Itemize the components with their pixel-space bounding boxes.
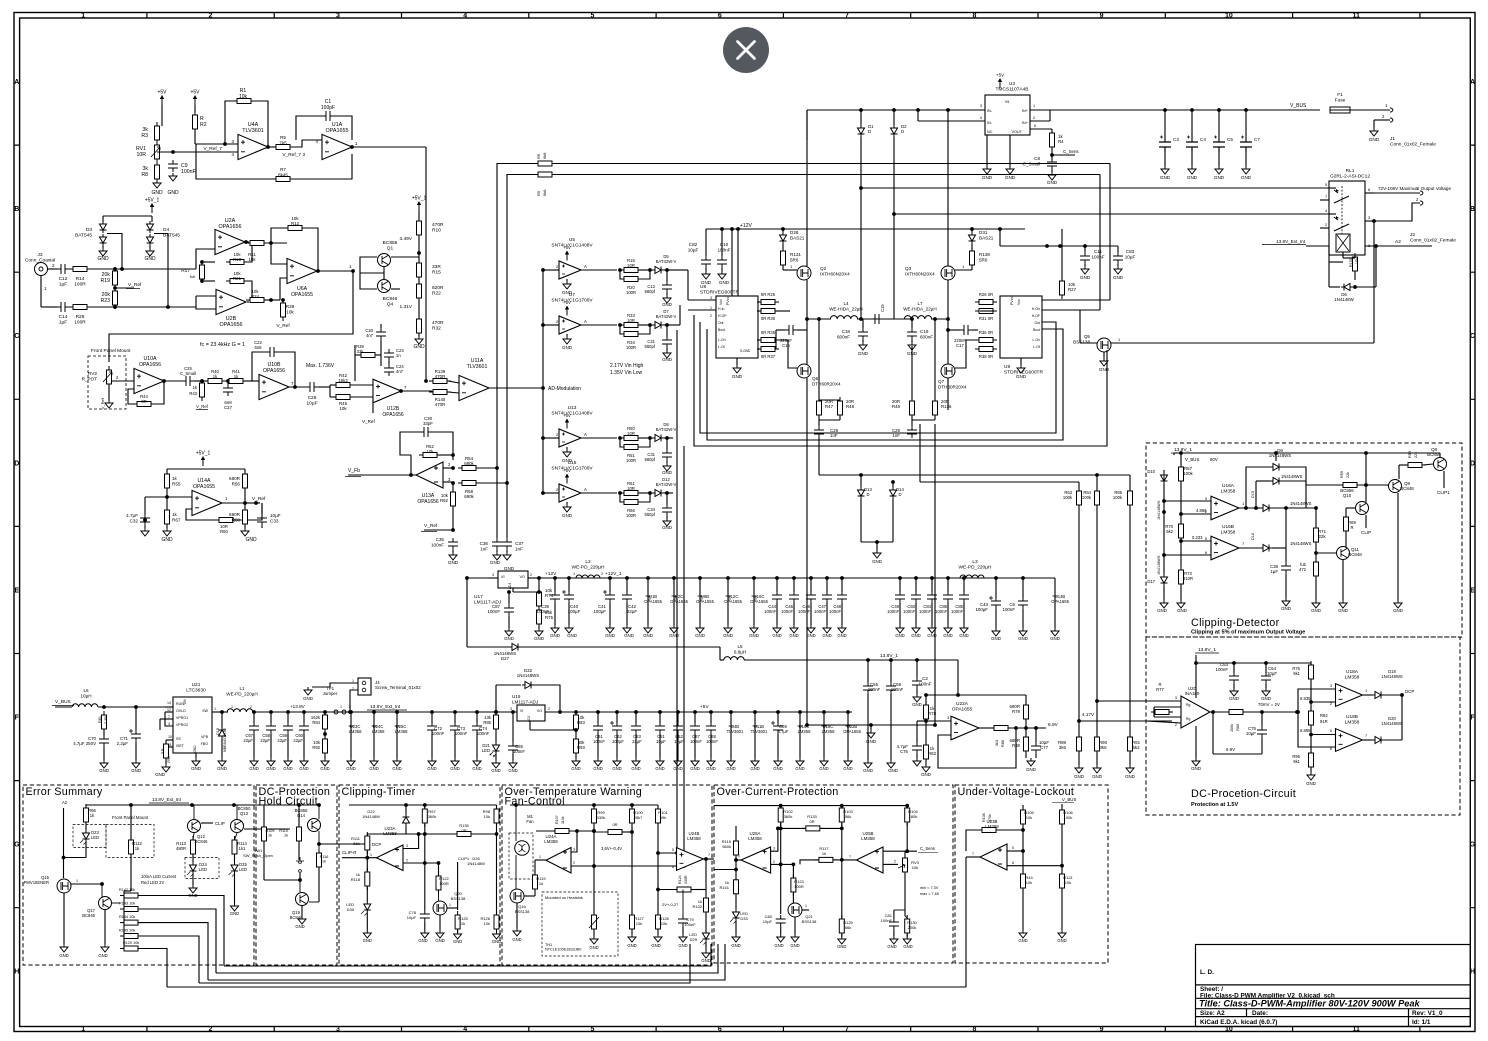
svg-text:R21: R21 xyxy=(233,276,242,281)
wire U23A inputs xyxy=(403,834,419,849)
svg-text:PVcc: PVcc xyxy=(726,296,730,305)
svg-text:472: 472 xyxy=(1299,567,1307,572)
svg-text:GND: GND xyxy=(1005,175,1016,180)
svg-text:Conn_01x02_Female: Conn_01x02_Female xyxy=(1410,238,1456,244)
ground xyxy=(721,268,723,271)
wire xyxy=(664,269,673,271)
svg-text:3k3: 3k3 xyxy=(995,740,999,746)
svg-text:6.9V: 6.9V xyxy=(1226,747,1235,752)
resistor R74 xyxy=(512,588,514,592)
svg-text:R131: R131 xyxy=(790,252,801,257)
svg-text:GND: GND xyxy=(1369,137,1380,143)
svg-text:3: 3 xyxy=(336,1026,340,1033)
svg-text:BC946: BC946 xyxy=(383,296,398,302)
ground xyxy=(1164,152,1166,166)
buck converter U21 LTC3630 xyxy=(173,697,212,753)
op-amp power pins U22B xyxy=(846,710,850,714)
svg-text:2: 2 xyxy=(1330,702,1332,706)
capacitor C19 xyxy=(911,319,913,328)
svg-text:100k: 100k xyxy=(1183,471,1193,476)
resistor R23 xyxy=(113,287,118,309)
wire xyxy=(917,110,919,121)
svg-text:BC848: BC848 xyxy=(1400,486,1414,491)
svg-text:CLIP-R: CLIP-R xyxy=(342,850,356,855)
op-amp U2B xyxy=(196,307,216,309)
svg-text:330R: 330R xyxy=(684,875,688,884)
svg-text:OPA1655: OPA1655 xyxy=(750,599,769,604)
svg-text:GND: GND xyxy=(1160,175,1171,180)
transistor Q13 BC850 xyxy=(231,820,244,833)
resistor R50 xyxy=(620,436,642,441)
svg-text:D30: D30 xyxy=(347,907,355,912)
svg-text:Clipping at 5% of maximum Outp: Clipping at 5% of maximum Output Voltage xyxy=(1191,630,1305,636)
wire xyxy=(957,660,959,695)
resistor R82 xyxy=(924,741,929,763)
svg-text:GND: GND xyxy=(1092,774,1102,779)
svg-text:GND: GND xyxy=(1125,774,1135,779)
wire U16A out xyxy=(1239,507,1256,509)
svg-text:56k: 56k xyxy=(845,925,851,930)
svg-text:7: 7 xyxy=(972,852,974,856)
svg-text:V_Ref: V_Ref xyxy=(100,397,105,409)
svg-text:C26: C26 xyxy=(308,395,317,401)
svg-text:10k: 10k xyxy=(661,921,667,926)
svg-text:100nF: 100nF xyxy=(919,609,931,614)
svg-text:Q2: Q2 xyxy=(820,266,827,271)
svg-text:100nF: 100nF xyxy=(829,609,841,614)
svg-text:R107: R107 xyxy=(555,815,559,824)
ground xyxy=(149,246,151,248)
transistor Q10 BC856 xyxy=(1356,502,1369,515)
svg-text:GND: GND xyxy=(863,768,873,773)
power flag +5V xyxy=(563,245,571,261)
capacitor C85 xyxy=(962,576,966,580)
resistor R36 xyxy=(975,338,997,343)
capacitor C51 xyxy=(658,710,662,714)
wire rail xyxy=(264,804,319,806)
svg-text:GND: GND xyxy=(97,256,109,262)
svg-text:GND: GND xyxy=(161,537,173,543)
ground xyxy=(736,358,738,365)
svg-text:R19: R19 xyxy=(100,278,110,284)
capacitor C83 xyxy=(1117,246,1119,252)
wire xyxy=(194,130,196,144)
transistor Q19 BC846 xyxy=(296,893,309,906)
svg-text:1: 1 xyxy=(214,707,216,711)
relay pins xyxy=(1329,187,1336,189)
resistor R40 xyxy=(204,379,226,384)
resistor R5 xyxy=(272,145,294,150)
svg-text:Vcc: Vcc xyxy=(1017,299,1021,305)
capacitor C76 xyxy=(912,742,922,754)
svg-text:Red LED 2V: Red LED 2V xyxy=(141,880,164,885)
capacitor C67 xyxy=(693,710,697,714)
capacitor C73 xyxy=(453,710,457,714)
svg-text:R144 10k: R144 10k xyxy=(119,915,135,919)
svg-text:V_Ref: V_Ref xyxy=(424,523,438,529)
ground xyxy=(666,461,668,463)
wire xyxy=(553,174,1100,176)
svg-text:9k1: 9k1 xyxy=(1293,671,1300,676)
diode D6 xyxy=(1328,262,1330,287)
ground xyxy=(862,340,864,342)
resistor R11 xyxy=(246,241,268,246)
svg-text:OPA1656: OPA1656 xyxy=(417,499,439,505)
capacitor C47 xyxy=(825,576,829,580)
resistor R130 xyxy=(905,915,910,937)
svg-text:6: 6 xyxy=(718,13,722,20)
svg-text:R32: R32 xyxy=(432,326,441,332)
resistor R49 xyxy=(910,397,915,419)
wire U24B inputs xyxy=(658,852,677,854)
capacitor C42 xyxy=(625,576,629,580)
svg-text:100nF: 100nF xyxy=(432,731,445,736)
op-amp power pins U14B xyxy=(1054,578,1056,612)
resistor R134 0R xyxy=(604,830,626,835)
svg-text:7: 7 xyxy=(845,1026,849,1033)
resistor R118 xyxy=(365,868,370,890)
wire xyxy=(1195,655,1197,663)
svg-text:6k2: 6k2 xyxy=(1166,529,1173,534)
svg-text:OPA1656: OPA1656 xyxy=(220,322,243,328)
svg-text:10mA LED Current: 10mA LED Current xyxy=(141,874,177,879)
svg-text:R10: R10 xyxy=(432,228,441,234)
wire U12B out xyxy=(399,389,403,393)
svg-text:10R: 10R xyxy=(627,263,635,268)
svg-text:4.17V: 4.17V xyxy=(1082,712,1095,717)
svg-text:LM358: LM358 xyxy=(1345,675,1360,681)
resistor R4 xyxy=(1050,129,1055,151)
resistor R47 xyxy=(817,397,822,419)
diode D8 xyxy=(639,437,650,439)
svg-text:VIN: VIN xyxy=(183,699,187,705)
resistor R32 xyxy=(417,315,422,337)
svg-text:Mounted on Heatsink: Mounted on Heatsink xyxy=(545,895,583,900)
svg-text:F: F xyxy=(1470,715,1475,722)
wire xyxy=(664,324,673,326)
wire U24A out xyxy=(535,859,546,861)
resistor R126 xyxy=(494,911,499,933)
wire feedback 6.9V xyxy=(1212,712,1214,754)
svg-text:C_Small: C_Small xyxy=(1023,161,1040,166)
capacitor C84 xyxy=(930,576,934,580)
svg-text:1nF: 1nF xyxy=(480,546,488,551)
svg-text:NC: NC xyxy=(987,130,993,134)
svg-text:SW: SW xyxy=(202,709,208,713)
svg-text:GND: GND xyxy=(266,766,275,771)
wire V_BUS drains xyxy=(806,110,808,266)
wire driver inputs xyxy=(688,299,716,301)
wire rail xyxy=(349,804,497,806)
resistor R62 xyxy=(451,481,455,485)
wire xyxy=(157,151,238,153)
svg-text:C19: C19 xyxy=(920,329,929,334)
svg-text:U3: U3 xyxy=(1009,81,1015,87)
svg-text:100nF: 100nF xyxy=(1091,254,1104,259)
resistor R25 xyxy=(757,300,779,305)
resistor R34 xyxy=(620,325,623,334)
wire to relay xyxy=(861,187,1336,189)
wire loop 1 xyxy=(224,944,711,966)
svg-text:1k: 1k xyxy=(172,476,178,481)
svg-text:R47: R47 xyxy=(825,404,834,409)
svg-text:GND: GND xyxy=(435,938,444,943)
svg-text:GND: GND xyxy=(567,633,577,638)
capacitor C39 xyxy=(553,576,557,580)
svg-text:+5V_1: +5V_1 xyxy=(145,198,160,204)
svg-text:INA180: INA180 xyxy=(1185,691,1200,696)
svg-text:GND: GND xyxy=(888,768,898,773)
svg-text:OPA1655: OPA1655 xyxy=(696,599,715,604)
svg-text:BAS21: BAS21 xyxy=(790,235,805,240)
svg-text:C76: C76 xyxy=(900,749,909,754)
ground xyxy=(153,180,161,188)
svg-text:100nF: 100nF xyxy=(891,687,904,692)
svg-text:V5: V5 xyxy=(1005,100,1009,104)
ground xyxy=(324,754,326,758)
resistor R24 xyxy=(247,301,249,303)
svg-text:GND: GND xyxy=(167,190,179,196)
svg-text:10k: 10k xyxy=(484,814,490,819)
svg-text:PMV15ENER: PMV15ENER xyxy=(24,880,49,885)
svg-text:Q4: Q4 xyxy=(387,302,394,308)
svg-text:GND: GND xyxy=(605,633,615,638)
svg-text:F1: F1 xyxy=(1337,92,1343,98)
svg-text:GND: GND xyxy=(695,633,705,638)
svg-text:D27: D27 xyxy=(501,656,510,661)
op-amp U23A tip left xyxy=(377,845,404,871)
svg-text:FBO: FBO xyxy=(201,742,209,746)
svg-text:GND: GND xyxy=(773,766,782,771)
resistor R1 xyxy=(225,101,236,144)
svg-text:2: 2 xyxy=(894,860,896,864)
ground xyxy=(166,525,168,528)
svg-text:1: 1 xyxy=(573,572,575,576)
svg-text:LM1117-ADJ: LM1117-ADJ xyxy=(512,699,538,704)
capacitor C82 xyxy=(705,229,707,256)
wire xyxy=(291,140,322,147)
capacitor C59 xyxy=(286,710,290,714)
wire driver B in from bus xyxy=(1109,164,1111,301)
transistor Q17 BC846 xyxy=(99,897,112,910)
svg-text:6: 6 xyxy=(718,1026,722,1033)
svg-text:3.3R: 3.3R xyxy=(104,716,108,724)
svg-text:SW_Push_Open: SW_Push_Open xyxy=(243,853,273,858)
capacitor C30 xyxy=(400,432,420,455)
svg-text:LM358: LM358 xyxy=(1221,530,1236,536)
capacitor C2 xyxy=(916,660,918,677)
power flag +5V xyxy=(190,90,200,106)
svg-text:SN74LVC1G1408V: SN74LVC1G1408V xyxy=(551,411,593,417)
svg-text:3: 3 xyxy=(773,847,775,851)
svg-text:2,2µF: 2,2µF xyxy=(117,741,129,746)
ground xyxy=(310,686,312,688)
svg-text:R43: R43 xyxy=(189,391,197,396)
svg-text:100nF: 100nF xyxy=(868,687,881,692)
capacitor C24 xyxy=(384,364,394,376)
svg-text:GND: GND xyxy=(490,560,501,565)
svg-text:4: 4 xyxy=(463,13,467,20)
svg-text:U21: U21 xyxy=(192,682,201,688)
svg-text:MBRA4003T3G: MBRA4003T3G xyxy=(223,728,227,752)
relay coil xyxy=(1336,234,1350,252)
svg-text:V_Ref_7 3: V_Ref_7 3 xyxy=(282,152,305,158)
wire xyxy=(1350,109,1390,111)
resistor R60 xyxy=(215,518,237,523)
resistor R26 xyxy=(975,300,997,305)
svg-text:SS: SS xyxy=(176,737,181,741)
ground xyxy=(666,516,668,518)
svg-text:U5: U5 xyxy=(569,237,575,243)
svg-text:L1: L1 xyxy=(239,686,245,691)
capacitor C31 xyxy=(666,438,668,450)
svg-text:GND: GND xyxy=(131,768,141,773)
svg-text:Fan-Control: Fan-Control xyxy=(505,796,565,808)
svg-text:R84: R84 xyxy=(312,720,320,725)
ground xyxy=(1191,152,1193,166)
svg-text:1: 1 xyxy=(710,306,712,310)
svg-text:R53: R53 xyxy=(1408,451,1412,458)
svg-text:Protection at 1.5V: Protection at 1.5V xyxy=(1191,802,1239,808)
capacitor C18 xyxy=(862,319,864,328)
wire verticals xyxy=(1078,506,1080,737)
svg-text:22µF: 22µF xyxy=(243,738,253,743)
svg-text:R132: R132 xyxy=(692,904,702,909)
svg-text:E: E xyxy=(1470,587,1475,594)
capacitor C64 xyxy=(1265,663,1267,673)
svg-text:110k: 110k xyxy=(561,816,565,824)
resistor R124 feedback xyxy=(673,887,695,892)
svg-text:OPA1655: OPA1655 xyxy=(193,484,215,490)
power flag +5V xyxy=(563,468,571,484)
svg-text:STDRIVEG600TR: STDRIVEG600TR xyxy=(700,290,739,296)
svg-text:480R: 480R xyxy=(176,846,186,851)
svg-text:GND: GND xyxy=(1311,608,1321,613)
svg-text:10µF: 10µF xyxy=(270,513,281,518)
svg-text:J1: J1 xyxy=(1390,136,1395,142)
svg-text:13.8V_1: 13.8V_1 xyxy=(880,653,898,659)
svg-text:V_BUS: V_BUS xyxy=(1185,457,1199,462)
wire CLIP1 xyxy=(447,907,458,909)
wire ladder common xyxy=(124,890,131,892)
svg-text:GND: GND xyxy=(662,357,672,362)
wire driver supply xyxy=(731,229,733,296)
wire hold bottom xyxy=(263,842,265,880)
wire 12V branch xyxy=(999,229,1001,246)
inductor L3 xyxy=(960,575,984,578)
svg-text:100nF: 100nF xyxy=(814,609,826,614)
diode D28 BAS21 xyxy=(782,229,784,232)
svg-text:8k45: 8k45 xyxy=(278,172,288,177)
svg-text:Id: 1/1: Id: 1/1 xyxy=(1412,1019,1431,1026)
svg-text:+5V: +5V xyxy=(563,245,571,250)
svg-text:GND: GND xyxy=(662,470,672,475)
svg-text:U16B: U16B xyxy=(1222,524,1234,530)
svg-text:ISET: ISET xyxy=(176,744,185,748)
svg-text:Rg: Rg xyxy=(1186,703,1190,707)
svg-text:L4: L4 xyxy=(843,301,849,306)
svg-text:SN74LVC1G1700V: SN74LVC1G1700V xyxy=(551,466,593,472)
svg-text:10µF: 10µF xyxy=(674,739,684,744)
svg-text:OPA1655: OPA1655 xyxy=(326,128,349,134)
svg-text:U17: U17 xyxy=(474,594,483,600)
svg-text:GND: GND xyxy=(593,766,602,771)
svg-text:100µF: 100µF xyxy=(612,739,624,744)
svg-text:R28: R28 xyxy=(76,314,85,320)
svg-text:U2B: U2B xyxy=(226,316,237,322)
resistor R150 xyxy=(1328,246,1330,262)
resistor R78 xyxy=(924,701,929,723)
svg-text:3: 3 xyxy=(336,13,340,20)
svg-text:CLIP: CLIP xyxy=(1361,530,1371,535)
svg-text:L-On: L-On xyxy=(1032,338,1040,342)
svg-text:+5V: +5V xyxy=(996,73,1004,78)
svg-text:SN74LVC1G1700V: SN74LVC1G1700V xyxy=(551,298,593,304)
svg-text:GND: GND xyxy=(295,924,304,929)
capacitor C48 xyxy=(840,576,844,580)
svg-text:100µF: 100µF xyxy=(568,609,581,614)
svg-text:2V+-0,27: 2V+-0,27 xyxy=(662,902,679,907)
svg-text:100R: 100R xyxy=(74,320,86,326)
resistor R103 xyxy=(841,806,843,807)
svg-text:10µF: 10µF xyxy=(1267,671,1277,676)
op-amp power pins U4B xyxy=(729,710,733,714)
svg-text:L3: L3 xyxy=(972,559,978,565)
resistor R30 xyxy=(757,309,779,314)
capacitor C14 xyxy=(57,302,69,312)
svg-text:GND: GND xyxy=(678,943,687,948)
wire Q5 gate xyxy=(1080,342,1097,344)
svg-text:RV2: RV2 xyxy=(88,371,97,376)
wire U23B xyxy=(966,830,981,851)
svg-text:0.233: 0.233 xyxy=(1192,535,1203,540)
svg-text:GND: GND xyxy=(726,766,735,771)
svg-text:2: 2 xyxy=(573,861,575,865)
svg-text:R36 0R: R36 0R xyxy=(979,330,993,335)
op-amp power pins U2C xyxy=(672,576,676,580)
svg-text:max = 7,65: max = 7,65 xyxy=(920,892,939,896)
svg-text:10µF: 10µF xyxy=(306,401,317,407)
svg-text:D: D xyxy=(1470,460,1475,467)
op-amp power pins U6B xyxy=(698,576,702,580)
svg-text:0R: 0R xyxy=(809,819,814,824)
svg-text:R79: R79 xyxy=(1012,709,1021,714)
svg-text:R8: R8 xyxy=(141,172,148,178)
connector J4 screw terminal xyxy=(358,678,371,695)
transistor Q8 BC856 xyxy=(1434,458,1447,471)
resistor R130b xyxy=(970,247,975,269)
op-amp U1A xyxy=(322,134,352,159)
resistor R112 xyxy=(130,805,132,840)
resistor R55 xyxy=(166,469,168,474)
svg-text:GND: GND xyxy=(245,537,257,543)
op-amp U24A tip left xyxy=(546,848,571,874)
svg-text:U19: U19 xyxy=(512,694,521,699)
op-amp power pins U24C xyxy=(372,710,376,714)
svg-text:100R: 100R xyxy=(626,458,636,463)
svg-text:GND: GND xyxy=(789,633,798,638)
ground xyxy=(1370,128,1378,136)
svg-text:GND: GND xyxy=(98,953,107,958)
wire xyxy=(857,318,913,320)
section box Clipping-Detector xyxy=(1146,443,1462,637)
svg-text:R55: R55 xyxy=(172,481,181,486)
svg-text:GND: GND xyxy=(772,633,781,638)
svg-text:LED: LED xyxy=(91,835,99,840)
ground xyxy=(566,334,568,336)
svg-text:200k: 200k xyxy=(1230,724,1234,732)
svg-text:5: 5 xyxy=(1012,846,1014,850)
